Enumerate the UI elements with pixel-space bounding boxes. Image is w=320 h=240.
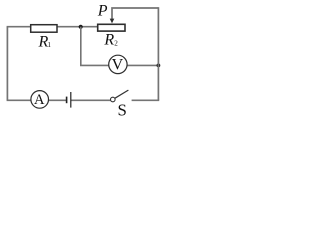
rheostat R2 xyxy=(98,24,125,31)
wire voltmeter to right rail xyxy=(127,64,158,66)
node junction top xyxy=(79,25,83,29)
svg-text:2: 2 xyxy=(114,40,118,48)
ammeter A xyxy=(31,91,49,109)
wire left vertical xyxy=(6,27,8,101)
wire battery to switch xyxy=(71,99,110,101)
svg-text:P: P xyxy=(97,3,108,20)
voltmeter V xyxy=(109,55,127,73)
switch S xyxy=(111,97,116,102)
wire ammeter to battery xyxy=(49,99,67,101)
wire switch to bottom right xyxy=(132,99,160,101)
svg-text:A: A xyxy=(34,92,45,108)
svg-text:R: R xyxy=(103,32,114,49)
svg-text:S: S xyxy=(118,101,127,120)
wire bottom left xyxy=(7,99,32,101)
wire R1 to R2 xyxy=(57,26,98,28)
wire junction down to voltmeter xyxy=(81,27,109,66)
resistor R1 xyxy=(31,25,57,33)
svg-text:V: V xyxy=(112,57,124,74)
battery xyxy=(66,97,68,104)
svg-text:1: 1 xyxy=(47,41,51,49)
node junction right xyxy=(157,64,161,68)
wire top left horizontal xyxy=(7,26,31,28)
slider arrow xyxy=(110,19,115,24)
wire slider top horizontal xyxy=(112,8,158,20)
wire right vertical xyxy=(157,7,159,100)
